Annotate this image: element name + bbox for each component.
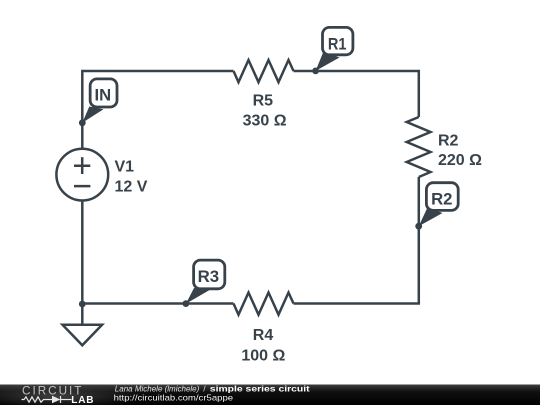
wire bottom horizontal left of R4 xyxy=(82,302,233,305)
svg-text:LAB: LAB xyxy=(71,395,94,405)
wire left vertical lower + ground stub xyxy=(81,200,84,324)
flag IN box xyxy=(90,79,117,107)
svg-text:R1: R1 xyxy=(328,34,347,53)
node R2 dot xyxy=(415,223,422,230)
flag R3 tail xyxy=(186,288,210,304)
flag R2 tail xyxy=(419,208,443,227)
svg-text:R4: R4 xyxy=(253,327,274,344)
svg-text:V1: V1 xyxy=(115,159,135,176)
wire right vertical below R2 + bottom-right corner + bottom wire xyxy=(294,177,419,304)
svg-text:12 V: 12 V xyxy=(115,179,148,196)
ground xyxy=(63,325,103,346)
svg-text:http://circuitlab.com/cr5appe: http://circuitlab.com/cr5appe xyxy=(114,392,234,402)
svg-text:220 Ω: 220 Ω xyxy=(438,152,482,169)
resistor R5 xyxy=(234,60,294,82)
footer bar xyxy=(0,385,540,405)
wire left vertical upper + top-left corner + top wire xyxy=(82,71,233,149)
flag R3 box xyxy=(194,260,225,289)
svg-text:100 Ω: 100 Ω xyxy=(241,347,285,364)
footer logo resistor-diode glyph xyxy=(22,396,72,403)
footer logo glow xyxy=(0,383,141,405)
wire top right + top-right corner + right vertical to R2 xyxy=(294,71,419,117)
node R3 dot xyxy=(183,300,190,307)
resistor R4 xyxy=(234,293,294,315)
svg-text:R3: R3 xyxy=(198,267,220,286)
svg-text:IN: IN xyxy=(95,86,112,105)
svg-text:330 Ω: 330 Ω xyxy=(243,112,287,129)
svg-text:R5: R5 xyxy=(253,93,274,110)
flag IN tail xyxy=(82,107,103,123)
svg-text:R2: R2 xyxy=(438,132,459,149)
flag R1 tail xyxy=(316,52,340,71)
node R1 dot xyxy=(312,68,319,75)
voltage source V1 xyxy=(56,149,108,201)
node IN dot xyxy=(79,119,86,126)
flag R1 box xyxy=(323,27,353,54)
resistor R2 xyxy=(407,117,431,177)
flag R2 box xyxy=(426,183,458,211)
svg-text:R2: R2 xyxy=(431,190,452,209)
ground node dot xyxy=(79,301,86,308)
